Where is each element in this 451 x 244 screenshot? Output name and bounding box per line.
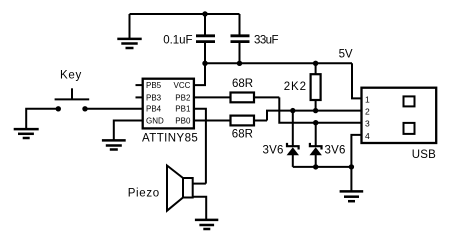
resistor R2 68R (PB0) xyxy=(194,120,231,122)
wire key to ground xyxy=(26,109,58,129)
zener diode D2 3V6 xyxy=(310,123,322,167)
connector key square bottom xyxy=(404,123,415,134)
svg-text:2: 2 xyxy=(365,107,370,117)
piezo speaker LS1 xyxy=(167,166,206,220)
ground GND1 (top left) xyxy=(117,14,141,48)
svg-text:3V6: 3V6 xyxy=(263,145,284,157)
svg-text:0.1uF: 0.1uF xyxy=(163,35,192,47)
switch S1 contact left xyxy=(56,106,61,111)
wire VCC to 5V rail xyxy=(194,63,205,85)
svg-text:PB0: PB0 xyxy=(175,117,191,126)
svg-text:5V: 5V xyxy=(339,49,353,61)
op-amp U1 ATTINY85 box xyxy=(143,79,194,129)
ground GND2 (under IC) xyxy=(102,140,126,149)
svg-text:PB4: PB4 xyxy=(146,105,162,114)
switch S1 actuator xyxy=(55,98,90,100)
wire GND pin to ground xyxy=(114,121,143,141)
node junction dot D2 bottom xyxy=(313,164,318,169)
node junction dot D2 top on D+ xyxy=(313,120,318,125)
node junction dot R3 bottom on D- xyxy=(313,108,318,113)
svg-text:1: 1 xyxy=(365,94,370,104)
svg-text:Piezo: Piezo xyxy=(128,188,160,200)
resistor R1 68R (PB2) xyxy=(194,96,231,98)
wire R2 to D- line xyxy=(267,111,362,121)
capacitor C1 0.1uF xyxy=(196,14,215,63)
node junction dot C2 bottom xyxy=(237,61,242,66)
svg-text:ATTINY85: ATTINY85 xyxy=(142,132,198,144)
wire 5V rail xyxy=(205,62,352,64)
svg-text:3: 3 xyxy=(365,119,370,129)
connector J1 USB box xyxy=(362,88,437,143)
node junction dot R3 top xyxy=(313,61,318,66)
svg-text:PB5: PB5 xyxy=(146,81,162,90)
wire R1 to D+ line xyxy=(279,97,361,122)
svg-text:33uF: 33uF xyxy=(254,35,279,47)
wire ground rail bottom xyxy=(293,166,352,168)
svg-text:2K2: 2K2 xyxy=(284,81,306,93)
wire 5V rail to USB pin 1 xyxy=(352,63,362,98)
svg-text:PB3: PB3 xyxy=(146,93,162,102)
svg-text:Key: Key xyxy=(60,69,81,81)
node junction dot C1 bottom xyxy=(202,61,207,66)
svg-text:PB1: PB1 xyxy=(175,105,191,114)
capacitor C2 33uF xyxy=(231,14,250,63)
pin stub PB3 xyxy=(136,96,143,98)
svg-text:VCC: VCC xyxy=(174,81,191,90)
zener diode D1 3V6 xyxy=(287,111,299,167)
svg-text:PB2: PB2 xyxy=(175,93,191,102)
svg-text:USB: USB xyxy=(412,149,436,161)
connector key square top xyxy=(404,96,415,106)
ground GND5 (piezo) xyxy=(195,220,218,229)
ground GND3 (key) xyxy=(14,129,39,138)
resistor R3 2K2 pullup xyxy=(315,63,317,74)
node junction dot C1 top xyxy=(202,11,207,16)
svg-text:3V6: 3V6 xyxy=(325,145,346,157)
pin stub PB5 xyxy=(136,84,143,86)
wire key to PB4 xyxy=(85,108,143,110)
switch S1 contact right xyxy=(82,106,87,111)
node junction dot USB shield ground xyxy=(349,164,354,169)
svg-text:4: 4 xyxy=(365,131,370,141)
svg-text:68R: 68R xyxy=(232,128,253,140)
wire PB1 to piezo xyxy=(194,109,206,184)
svg-text:68R: 68R xyxy=(232,78,253,90)
wire USB pin4 to ground xyxy=(351,135,361,192)
ground GND4 (USB) xyxy=(340,191,364,201)
wire top ground rail xyxy=(130,13,240,15)
svg-text:GND: GND xyxy=(146,117,164,126)
node junction dot D1 top on D- xyxy=(290,108,295,113)
